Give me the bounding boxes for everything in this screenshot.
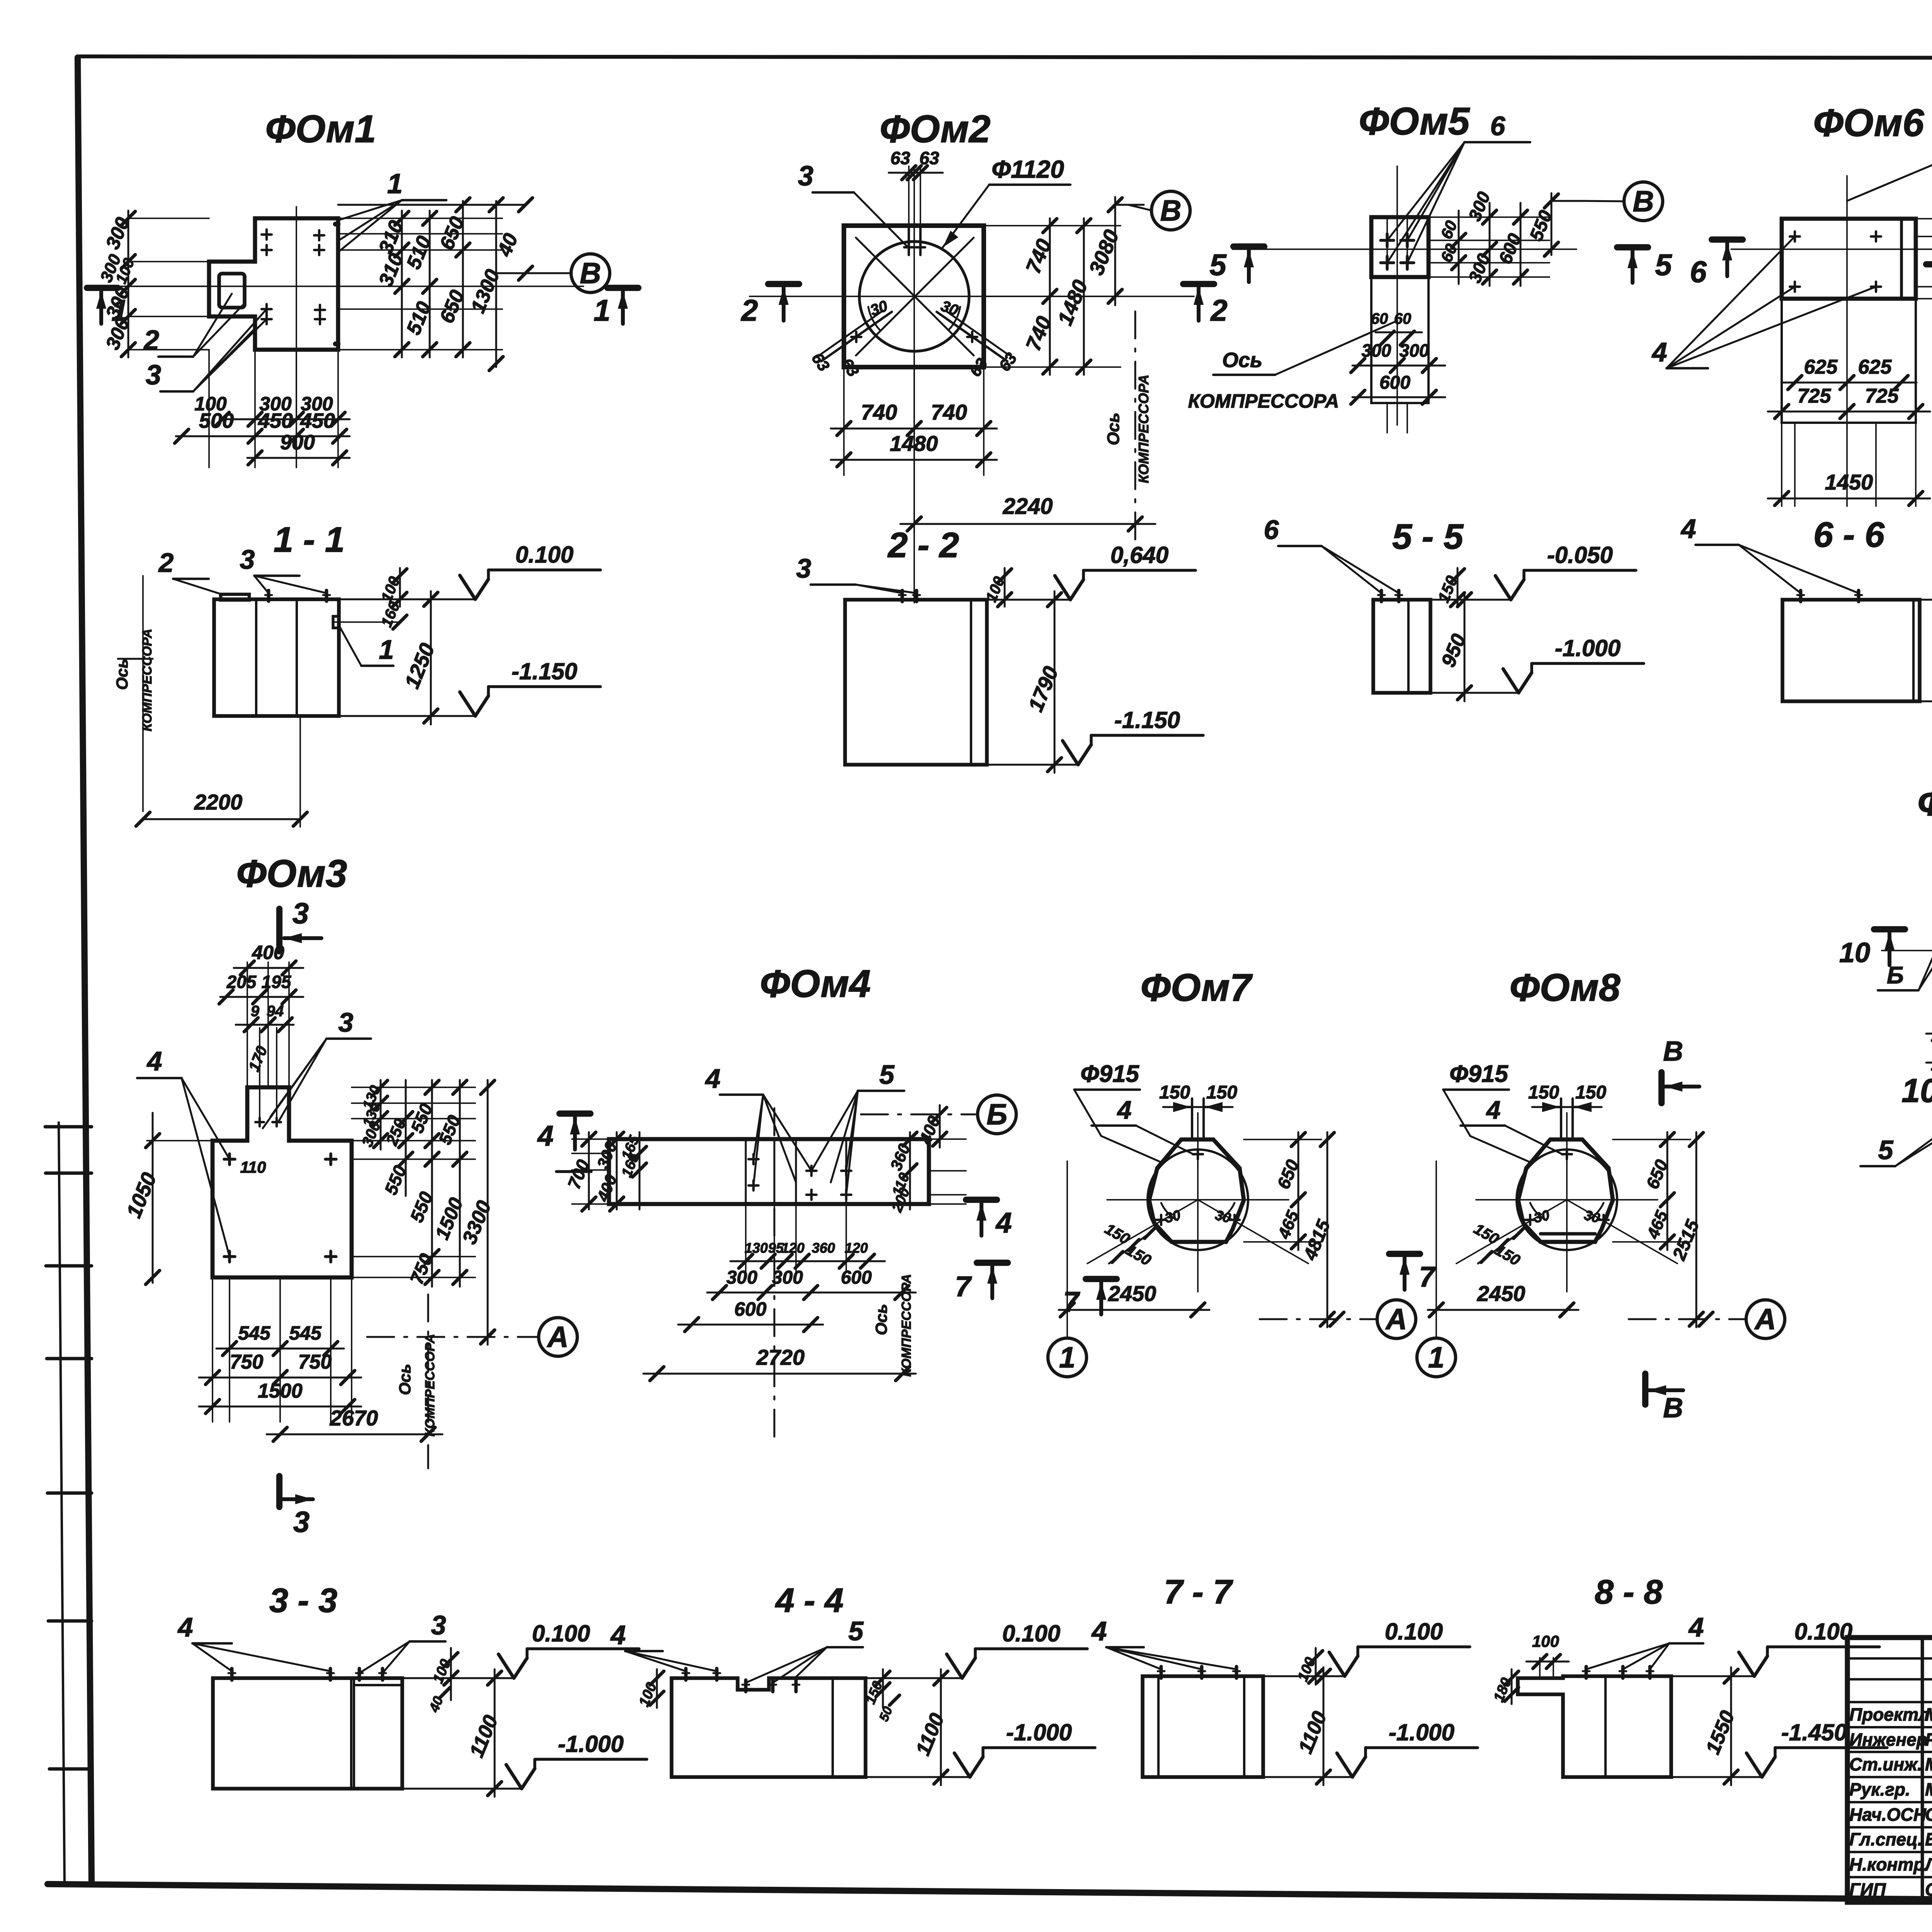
svg-text:63: 63	[808, 349, 833, 374]
svg-text:3: 3	[146, 360, 161, 391]
svg-text:63: 63	[837, 355, 862, 380]
svg-text:1500: 1500	[258, 1380, 303, 1402]
svg-text:Решетников: Решетников	[1925, 1730, 1932, 1750]
svg-text:9: 9	[251, 1003, 260, 1020]
svg-text:-1.450: -1.450	[1781, 1719, 1847, 1745]
svg-text:4: 4	[537, 1120, 553, 1152]
svg-text:ФОм10: ФОм10	[1917, 782, 1932, 823]
svg-text:4: 4	[610, 1620, 626, 1650]
svg-text:-1.000: -1.000	[1389, 1719, 1454, 1745]
svg-text:4: 4	[1091, 1616, 1107, 1646]
svg-text:2240: 2240	[1002, 494, 1053, 519]
svg-text:300: 300	[772, 1267, 803, 1288]
svg-text:Ось: Ось	[1222, 349, 1262, 372]
svg-text:5: 5	[849, 1616, 864, 1646]
svg-text:0.100: 0.100	[1002, 1621, 1060, 1646]
svg-text:4: 4	[1688, 1612, 1704, 1642]
svg-text:Бояченко: Бояченко	[1925, 1829, 1932, 1849]
svg-text:3: 3	[338, 1007, 354, 1037]
svg-text:3080: 3080	[1085, 226, 1124, 278]
svg-text:625: 625	[1804, 356, 1838, 378]
svg-text:В: В	[1160, 194, 1182, 227]
svg-text:2670: 2670	[330, 1406, 378, 1430]
svg-text:КОМПРЕССОРА: КОМПРЕССОРА	[899, 1274, 914, 1377]
svg-text:600: 600	[841, 1267, 872, 1288]
svg-text:ФОм3: ФОм3	[236, 852, 347, 895]
svg-text:Ось: Ось	[1104, 413, 1123, 446]
svg-text:1550: 1550	[1702, 1708, 1739, 1757]
svg-text:40: 40	[426, 1694, 446, 1714]
svg-text:Ф915: Ф915	[1080, 1061, 1139, 1087]
svg-text:100: 100	[1532, 1632, 1559, 1650]
svg-text:Рук.гр.: Рук.гр.	[1849, 1779, 1910, 1799]
svg-text:ФОм8: ФОм8	[1510, 966, 1621, 1009]
svg-text:3: 3	[796, 553, 811, 583]
svg-text:1250: 1250	[400, 640, 439, 692]
svg-text:1450: 1450	[1825, 470, 1873, 494]
svg-text:ФОм6: ФОм6	[1813, 101, 1925, 145]
svg-text:1480: 1480	[890, 431, 938, 456]
svg-text:Н.контр.: Н.контр.	[1849, 1854, 1929, 1874]
svg-text:2: 2	[740, 293, 758, 327]
svg-text:1: 1	[1428, 1341, 1444, 1374]
svg-text:ФОм7: ФОм7	[1141, 966, 1253, 1009]
svg-text:10: 10	[1839, 937, 1870, 968]
svg-text:5: 5	[1209, 248, 1227, 282]
svg-text:4: 4	[146, 1046, 162, 1076]
svg-text:8 - 8: 8 - 8	[1595, 1573, 1663, 1611]
svg-text:ГИП: ГИП	[1849, 1879, 1886, 1900]
svg-text:КОМПРЕССОРА: КОМПРЕССОРА	[140, 629, 155, 731]
svg-text:63: 63	[995, 349, 1020, 374]
svg-text:2450: 2450	[1477, 1281, 1526, 1306]
svg-text:120: 120	[845, 1240, 868, 1256]
svg-text:Ось: Ось	[872, 1304, 890, 1335]
svg-text:60: 60	[1371, 310, 1388, 327]
svg-text:4: 4	[1680, 514, 1696, 544]
svg-text:300: 300	[1362, 340, 1391, 361]
svg-text:Ф915: Ф915	[1449, 1061, 1509, 1087]
svg-text:60: 60	[1437, 241, 1461, 265]
svg-text:ФОм1: ФОм1	[265, 107, 376, 151]
svg-text:3: 3	[240, 544, 255, 575]
svg-text:195: 195	[262, 972, 292, 992]
svg-text:Гл.спец.: Гл.спец.	[1849, 1829, 1923, 1849]
svg-text:А: А	[1754, 1303, 1776, 1336]
svg-text:1: 1	[387, 168, 403, 199]
svg-text:40: 40	[493, 230, 522, 260]
svg-text:5 - 5: 5 - 5	[1392, 517, 1464, 556]
svg-text:545: 545	[238, 1322, 271, 1344]
svg-text:205: 205	[226, 972, 257, 992]
svg-text:-1.000: -1.000	[1555, 635, 1621, 661]
svg-text:300: 300	[726, 1267, 757, 1288]
svg-text:150: 150	[1206, 1082, 1237, 1103]
svg-text:-1.000: -1.000	[558, 1731, 624, 1757]
svg-text:3: 3	[431, 1610, 446, 1640]
svg-text:2: 2	[1210, 293, 1227, 327]
svg-text:150: 150	[1528, 1082, 1559, 1103]
svg-text:900: 900	[280, 431, 315, 454]
svg-text:0,640: 0,640	[1111, 542, 1168, 568]
svg-text:300: 300	[1400, 340, 1429, 361]
svg-text:КОМПРЕССОРА: КОМПРЕССОРА	[1188, 390, 1339, 412]
svg-text:Ст.инж.: Ст.инж.	[1849, 1754, 1922, 1774]
svg-text:Моргунов: Моргунов	[1925, 1704, 1932, 1725]
svg-text:5: 5	[1878, 1135, 1894, 1165]
svg-text:ФОм2: ФОм2	[880, 107, 991, 151]
svg-text:740: 740	[1022, 313, 1056, 354]
svg-text:1: 1	[379, 634, 394, 665]
svg-text:0.100: 0.100	[1385, 1619, 1443, 1645]
svg-text:625: 625	[1858, 356, 1892, 378]
svg-text:740: 740	[1022, 236, 1056, 277]
svg-text:Луценко: Луценко	[1924, 1854, 1932, 1874]
svg-text:545: 545	[289, 1322, 322, 1344]
svg-text:450: 450	[300, 409, 335, 432]
svg-text:2: 2	[143, 325, 159, 356]
svg-text:А: А	[1385, 1303, 1407, 1336]
svg-text:А: А	[547, 1321, 569, 1354]
svg-text:Осташевски: Осташевски	[1925, 1879, 1932, 1900]
svg-text:120: 120	[781, 1240, 804, 1256]
svg-text:Проектл: Проектл	[1849, 1704, 1929, 1725]
svg-text:110: 110	[240, 1158, 266, 1176]
svg-text:В: В	[1633, 185, 1654, 218]
svg-text:60: 60	[1437, 218, 1461, 241]
svg-text:50: 50	[876, 1704, 895, 1723]
svg-text:150: 150	[1471, 1220, 1502, 1248]
svg-text:3: 3	[293, 1506, 310, 1539]
svg-text:ФОм4: ФОм4	[760, 962, 871, 1005]
svg-text:Нач.ОСН: Нач.ОСН	[1849, 1804, 1927, 1825]
svg-text:1: 1	[1059, 1341, 1075, 1374]
svg-text:6 - 6: 6 - 6	[1813, 515, 1885, 554]
svg-text:Макарова: Макарова	[1925, 1754, 1932, 1774]
svg-text:3 - 3: 3 - 3	[269, 1581, 337, 1619]
svg-text:130: 130	[745, 1240, 768, 1256]
svg-text:-1.150: -1.150	[512, 658, 577, 684]
svg-text:ФОм5: ФОм5	[1359, 100, 1470, 143]
svg-text:740: 740	[931, 400, 967, 424]
svg-text:725: 725	[1798, 385, 1832, 407]
svg-text:2720: 2720	[756, 1345, 805, 1369]
svg-text:2200: 2200	[194, 790, 243, 814]
svg-text:Ось: Ось	[113, 659, 131, 690]
svg-text:360: 360	[812, 1240, 835, 1256]
svg-text:Саакьянц: Саакьянц	[1925, 1804, 1932, 1825]
svg-text:3: 3	[293, 897, 309, 930]
svg-text:400: 400	[252, 942, 284, 963]
svg-text:63: 63	[919, 148, 939, 168]
svg-text:10 - 10: 10 - 10	[1901, 1072, 1932, 1109]
svg-text:4: 4	[177, 1612, 193, 1642]
svg-text:750: 750	[298, 1351, 332, 1373]
svg-text:4: 4	[1117, 1095, 1132, 1124]
svg-text:0.100: 0.100	[515, 542, 573, 568]
svg-text:-0.050: -0.050	[1547, 542, 1613, 568]
svg-text:1100: 1100	[465, 1712, 502, 1760]
svg-text:1100: 1100	[1294, 1708, 1331, 1757]
svg-text:150: 150	[1102, 1220, 1133, 1248]
svg-text:4: 4	[995, 1207, 1012, 1239]
svg-text:150: 150	[1575, 1082, 1606, 1103]
svg-text:2: 2	[158, 548, 174, 578]
svg-text:450: 450	[258, 409, 293, 432]
svg-text:4 - 4: 4 - 4	[775, 1581, 844, 1619]
svg-text:740: 740	[861, 400, 897, 424]
svg-text:750: 750	[230, 1351, 264, 1373]
svg-text:725: 725	[1865, 385, 1899, 407]
svg-text:4: 4	[1486, 1095, 1501, 1124]
svg-text:7: 7	[955, 1270, 972, 1303]
svg-text:63: 63	[890, 148, 910, 168]
svg-text:600: 600	[734, 1298, 767, 1320]
svg-text:600: 600	[1379, 372, 1410, 393]
svg-text:КОМПРЕССОРА: КОМПРЕССОРА	[1136, 374, 1151, 483]
svg-text:500: 500	[199, 409, 234, 432]
svg-text:5: 5	[1655, 248, 1672, 282]
svg-text:60: 60	[1394, 310, 1412, 327]
svg-text:0.100: 0.100	[532, 1621, 590, 1646]
svg-text:7: 7	[1419, 1261, 1436, 1293]
svg-text:6: 6	[1490, 111, 1506, 141]
svg-text:1100: 1100	[912, 1710, 949, 1759]
svg-text:2515: 2515	[1669, 1217, 1704, 1264]
svg-text:150: 150	[1492, 1242, 1523, 1269]
svg-text:Б: Б	[986, 1098, 1007, 1131]
svg-text:В: В	[1663, 1393, 1683, 1423]
svg-text:1790: 1790	[1024, 663, 1063, 715]
svg-text:7 - 7: 7 - 7	[1164, 1573, 1233, 1611]
svg-text:4: 4	[705, 1063, 721, 1094]
svg-text:6: 6	[1690, 255, 1707, 289]
svg-text:0.100: 0.100	[1794, 1619, 1852, 1645]
svg-text:-1.000: -1.000	[1006, 1719, 1072, 1745]
svg-text:1: 1	[111, 293, 128, 327]
svg-text:Ось: Ось	[396, 1364, 414, 1395]
svg-text:КОМПРЕССОРА: КОМПРЕССОРА	[423, 1334, 437, 1437]
svg-text:В: В	[1663, 1036, 1683, 1067]
svg-text:Моргунов: Моргунов	[1925, 1779, 1932, 1799]
svg-text:6: 6	[1264, 515, 1279, 545]
svg-text:В: В	[580, 257, 601, 290]
svg-text:1480: 1480	[1053, 277, 1092, 328]
svg-text:2450: 2450	[1108, 1281, 1156, 1306]
svg-text:2 - 2: 2 - 2	[887, 526, 959, 565]
svg-text:1: 1	[594, 293, 610, 327]
svg-text:94: 94	[267, 1003, 284, 1020]
svg-text:170: 170	[245, 1044, 271, 1074]
svg-text:4: 4	[1651, 337, 1667, 367]
svg-text:3: 3	[798, 161, 813, 192]
svg-text:Ф1120: Ф1120	[992, 155, 1064, 183]
svg-text:-1.150: -1.150	[1114, 707, 1180, 733]
svg-text:4815: 4815	[1300, 1217, 1335, 1264]
svg-text:150: 150	[1123, 1242, 1154, 1269]
svg-text:7: 7	[1063, 1286, 1080, 1318]
svg-text:1 - 1: 1 - 1	[274, 520, 345, 560]
svg-text:150: 150	[1159, 1082, 1190, 1103]
svg-text:1050: 1050	[122, 1169, 161, 1221]
svg-text:5: 5	[879, 1060, 895, 1090]
